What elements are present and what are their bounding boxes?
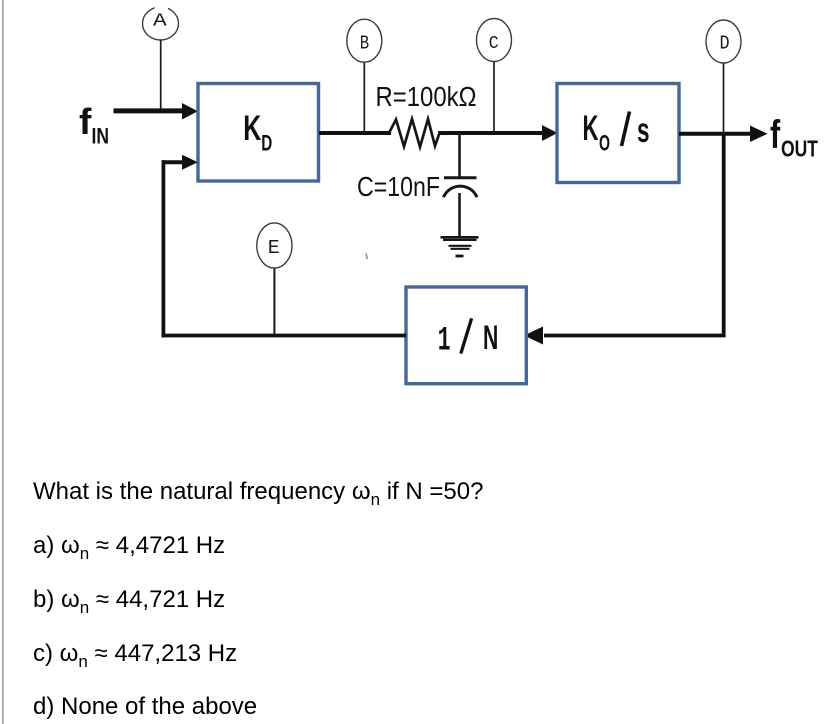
label R=100kOhm	[376, 81, 477, 112]
label C=10nF	[357, 171, 440, 202]
svg-text:N: N	[483, 319, 498, 357]
label fIN	[79, 101, 109, 149]
block KD	[198, 84, 319, 182]
node E stem wire	[273, 269, 275, 335]
wire feedback left vertical	[161, 160, 165, 337]
answer c	[33, 642, 237, 666]
svg-text:A: A	[153, 12, 167, 32]
arrowhead into KD upper input	[182, 103, 198, 120]
wire fIN input	[114, 108, 185, 113]
svg-text:R=100kΩ: R=100kΩ	[376, 81, 477, 112]
node B circle	[347, 19, 382, 62]
stray mark	[366, 254, 367, 260]
svg-text:B: B	[360, 33, 369, 55]
question text	[33, 480, 483, 504]
resistor R	[389, 119, 440, 147]
svg-text:K: K	[243, 109, 261, 148]
svg-text:C=10nF: C=10nF	[357, 171, 440, 202]
wire into KD lower input	[162, 160, 185, 164]
ground	[441, 237, 479, 256]
wire capacitor to ground	[458, 193, 461, 237]
svg-text:s: s	[637, 111, 650, 150]
svg-text:IN: IN	[92, 124, 110, 149]
answer d	[33, 695, 257, 719]
wire KD output	[319, 131, 391, 135]
arrowhead into 1/N	[524, 327, 543, 345]
svg-text:O: O	[599, 130, 610, 155]
wire feedback bottom horizontal	[162, 334, 407, 338]
svg-text:D: D	[261, 130, 272, 155]
node E circle	[257, 223, 292, 268]
svg-text:C: C	[489, 33, 499, 54]
wire feedback top horizontal to 1/N	[544, 334, 726, 338]
svg-text:D: D	[720, 33, 730, 55]
svg-text:f: f	[79, 101, 92, 142]
svg-text:OUT: OUT	[781, 135, 818, 161]
label fOUT	[770, 113, 818, 161]
node B stem wire	[363, 62, 365, 133]
wire KO/s output	[679, 132, 752, 136]
block KO/s	[557, 84, 679, 183]
svg-text:f: f	[770, 113, 781, 157]
block 1/N	[406, 287, 526, 384]
answer a	[33, 534, 225, 558]
svg-text:E: E	[268, 237, 280, 259]
arrowhead into KD lower input	[182, 155, 198, 170]
wire feedback right vertical	[722, 134, 726, 334]
node A circle	[143, 4, 179, 40]
node D circle	[706, 20, 741, 63]
arrowhead to fOUT	[750, 126, 768, 143]
wire resistor to KO/s	[438, 131, 544, 135]
svg-text:K: K	[583, 109, 599, 148]
answer b	[33, 588, 225, 612]
node C circle	[477, 19, 512, 62]
arrowhead into KO/s	[542, 125, 558, 141]
svg-text:1: 1	[438, 323, 451, 361]
capacitor C curved plate	[444, 186, 478, 197]
node A stem wire	[160, 40, 162, 110]
page left border	[2, 0, 4, 724]
wire capacitor top	[458, 133, 461, 177]
node D stem wire	[723, 64, 725, 134]
node C stem wire	[493, 62, 495, 134]
capacitor C top plate	[444, 176, 477, 179]
